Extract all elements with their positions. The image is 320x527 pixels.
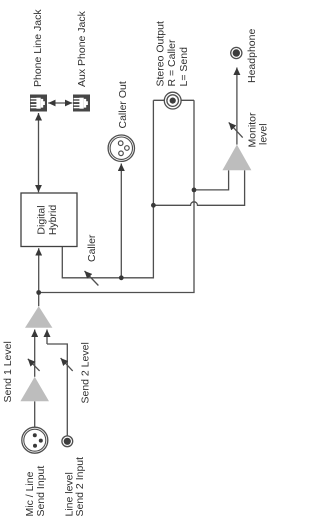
- svg-text:Send Input: Send Input: [35, 466, 47, 517]
- svg-text:Hybrid: Hybrid: [47, 205, 59, 236]
- svg-text:Headphone: Headphone: [246, 29, 258, 83]
- svg-text:Phone Line Jack: Phone Line Jack: [32, 9, 44, 87]
- svg-text:level: level: [258, 123, 270, 145]
- svg-text:L= Send: L= Send: [178, 47, 190, 87]
- svg-text:Aux Phone Jack: Aux Phone Jack: [76, 10, 88, 87]
- svg-text:Caller Out: Caller Out: [117, 81, 129, 128]
- svg-text:Send 2 Level: Send 2 Level: [80, 342, 92, 403]
- svg-text:Send 1 Level: Send 1 Level: [2, 341, 14, 402]
- svg-text:Caller: Caller: [86, 234, 98, 262]
- svg-text:Stereo Output: Stereo Output: [155, 21, 167, 86]
- svg-text:Digital: Digital: [36, 205, 48, 234]
- svg-text:R = Caller: R = Caller: [166, 39, 178, 86]
- svg-text:Send 2 Input: Send 2 Input: [74, 457, 86, 517]
